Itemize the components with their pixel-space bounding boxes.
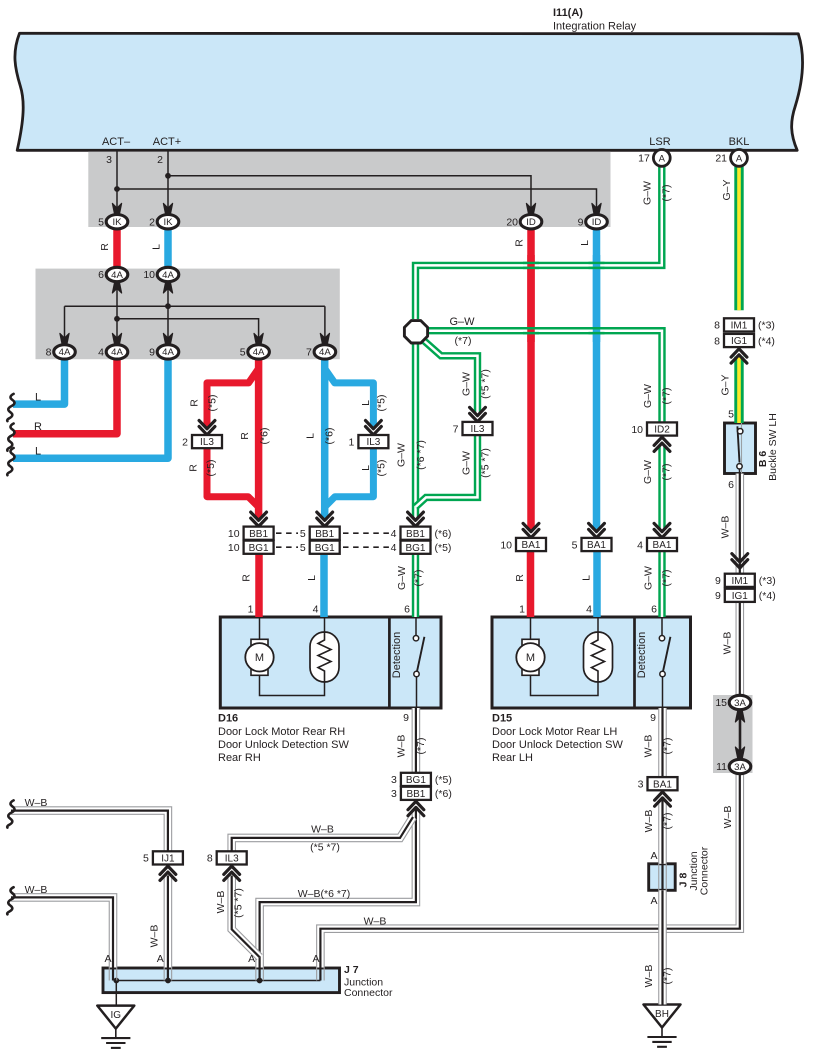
svg-text:M: M [526, 652, 535, 664]
frayed end L bottom [7, 448, 14, 475]
svg-text:(*7): (*7) [662, 738, 674, 755]
pass-through arrows between 3A connectors [739, 712, 742, 757]
svg-text:Door Lock Motor Rear RH: Door Lock Motor Rear RH [218, 726, 345, 738]
label D15 block [492, 713, 623, 765]
connector 3A pin15 [715, 695, 750, 709]
svg-text:BB1: BB1 [406, 789, 425, 800]
svg-text:(*7): (*7) [662, 813, 674, 830]
svg-text:1: 1 [248, 604, 254, 616]
shading box around 4A connectors [36, 269, 340, 360]
svg-text:W–B: W–B [149, 925, 161, 948]
wire G-W octagon to ID2 [427, 331, 662, 423]
svg-text:(*5): (*5) [435, 774, 452, 786]
svg-text:L: L [360, 400, 372, 406]
svg-text:9: 9 [403, 712, 409, 724]
chevron into BA1-5 [589, 523, 605, 537]
label J7 [344, 964, 393, 999]
svg-text:(*5 *7): (*5 *7) [480, 448, 492, 478]
svg-text:W–B: W–B [722, 806, 734, 829]
chevron below IM1-8 [731, 349, 747, 363]
label J8 [678, 846, 711, 895]
connector A pin21 BKL [715, 150, 747, 167]
svg-text:10: 10 [228, 528, 240, 540]
wire L IK2 to 4A10 [164, 228, 172, 269]
wire L loop through IL3-1 [325, 369, 374, 508]
dashed link BB1 row [276, 532, 389, 534]
green crossing patches [523, 263, 539, 268]
svg-text:W–B: W–B [311, 824, 334, 836]
svg-text:1: 1 [349, 436, 355, 448]
svg-text:Integration Relay: Integration Relay [553, 21, 637, 33]
svg-text:4A: 4A [111, 270, 123, 281]
connector IG1 pin8 [714, 334, 775, 347]
svg-text:ID2: ID2 [654, 425, 670, 436]
svg-text:L: L [305, 433, 317, 439]
svg-text:9: 9 [578, 216, 584, 228]
connector BB1 pin4 [391, 527, 452, 540]
wire R ID20 to BA1-10 [527, 228, 535, 530]
svg-text:(*5 *7): (*5 *7) [310, 842, 340, 854]
svg-text:3: 3 [106, 154, 112, 166]
connector BB1 pin10 [228, 527, 274, 540]
component J7 junction connector [103, 968, 340, 993]
svg-text:R: R [239, 432, 251, 440]
wire W-B IJ1 to J7 [164, 876, 173, 968]
svg-text:G–W: G–W [642, 460, 654, 484]
svg-text:(*5 *7): (*5 *7) [233, 888, 245, 918]
connector IK pin2 [149, 215, 179, 229]
svg-text:W–B(*6 *7): W–B(*6 *7) [298, 888, 351, 900]
arrow into ID9 [592, 203, 601, 215]
wire G-W octagon main down to BB1-4 [412, 343, 419, 518]
wire pin3 ACT- down [116, 151, 118, 214]
svg-text:BA1: BA1 [653, 779, 672, 790]
arrow into 4A8 [60, 333, 69, 345]
label I11(A) Integration Relay [553, 7, 637, 33]
svg-text:IG1: IG1 [732, 591, 749, 602]
svg-text:A: A [650, 895, 657, 907]
svg-text:G–Y: G–Y [721, 179, 733, 200]
svg-text:IG: IG [111, 1010, 122, 1021]
connector IG1 pin9 [715, 589, 776, 602]
chevron into IL3-2 [199, 421, 215, 435]
connector 3A pin11 [716, 759, 751, 773]
arrow into 4A6 [112, 281, 121, 293]
svg-text:A: A [157, 953, 164, 965]
connector BB1 pin3 [391, 787, 452, 800]
svg-text:I11(A): I11(A) [553, 7, 583, 19]
svg-text:L: L [35, 392, 41, 404]
svg-text:6: 6 [404, 604, 410, 616]
svg-text:R: R [514, 574, 526, 582]
connector IL3 pin2 [182, 435, 222, 448]
svg-text:5: 5 [300, 528, 306, 540]
svg-text:10: 10 [500, 539, 512, 551]
label D16 block [218, 713, 349, 765]
svg-text:BG1: BG1 [405, 543, 425, 554]
svg-text:G–W: G–W [642, 384, 654, 408]
svg-text:3A: 3A [734, 698, 746, 709]
svg-text:L: L [35, 446, 41, 458]
svg-text:2: 2 [157, 154, 163, 166]
connector IL3 pin7 [453, 422, 493, 435]
component D16 Door Lock Motor Rear RH [220, 617, 441, 708]
wire G-W LSR to octagon [416, 162, 662, 319]
svg-text:IM1: IM1 [731, 321, 748, 332]
svg-text:W–B: W–B [722, 632, 734, 655]
frayed end W-B top [7, 800, 14, 827]
svg-text:17: 17 [638, 153, 650, 165]
svg-text:G–W: G–W [396, 443, 408, 467]
wire ACT+ to ID20 [168, 176, 531, 213]
svg-text:(*7): (*7) [415, 738, 427, 755]
svg-text:BG1: BG1 [406, 775, 426, 786]
connector IM1 pin9 [715, 574, 776, 587]
chevron below ID2 [654, 437, 670, 451]
svg-text:(*6): (*6) [435, 528, 452, 540]
svg-text:5: 5 [143, 853, 149, 865]
svg-text:(*7): (*7) [662, 968, 674, 985]
svg-text:Buckle SW LH: Buckle SW LH [767, 413, 779, 481]
svg-text:9: 9 [650, 712, 656, 724]
connector ID pin9 [578, 215, 608, 229]
frayed end L top [7, 394, 14, 421]
arrow into 4A10 [163, 281, 172, 293]
svg-text:BB1: BB1 [406, 529, 425, 540]
wire G-W BA1-4 to D15 pin6 [658, 552, 665, 618]
svg-text:W–B: W–B [396, 735, 408, 758]
svg-text:Door Lock Motor Rear LH: Door Lock Motor Rear LH [492, 726, 617, 738]
svg-text:G–W: G–W [643, 566, 655, 590]
svg-text:L: L [360, 465, 372, 471]
chevron into BG1-3 stack [408, 801, 424, 815]
svg-text:3: 3 [391, 774, 397, 786]
svg-text:IJ1: IJ1 [161, 854, 175, 865]
svg-text:BB1: BB1 [249, 529, 268, 540]
chevron into BA1-3 [655, 792, 671, 806]
svg-text:BG1: BG1 [315, 543, 335, 554]
wire J7 to IG ground [115, 981, 117, 1006]
component J8 junction connector [649, 864, 676, 891]
svg-text:(*6): (*6) [324, 428, 336, 445]
svg-text:G–Y: G–Y [720, 374, 732, 395]
svg-text:8: 8 [714, 335, 720, 347]
wire pin2 ACT+ down [167, 151, 169, 214]
connector IL3 pin8 [207, 851, 247, 864]
svg-text:BH: BH [655, 1009, 669, 1020]
connector ID2 pin10 [631, 422, 677, 435]
svg-text:(*4): (*4) [759, 590, 776, 602]
svg-text:4A: 4A [162, 347, 174, 358]
svg-text:4: 4 [313, 604, 319, 616]
svg-text:Detection: Detection [391, 632, 403, 678]
svg-text:4A: 4A [162, 270, 174, 281]
connector 4A pin8 [46, 345, 76, 359]
frayed end R [7, 424, 14, 451]
ground IG [97, 1006, 134, 1048]
connector A pin17 LSR [638, 150, 670, 167]
wire G-W BG1-4 to D16 pin6 [412, 553, 419, 617]
svg-text:D15: D15 [492, 713, 512, 725]
connector 4A pin7 [306, 345, 336, 359]
svg-text:8: 8 [207, 853, 213, 865]
junction dot J7-3 [257, 978, 263, 984]
component D15 Door Lock Motor Rear LH [492, 617, 691, 708]
svg-text:4A: 4A [59, 347, 71, 358]
connector IL3 pin1 [349, 435, 389, 448]
wire R 4A5 main down to BB1-10 [255, 358, 263, 519]
arrow into IK2 [163, 203, 172, 215]
svg-text:(*7): (*7) [661, 464, 673, 481]
svg-text:W–B: W–B [643, 735, 655, 758]
wire W-B IL3-8 top run to BB1-3 [232, 817, 413, 851]
svg-text:15: 15 [715, 697, 727, 709]
arrow into 4A9 [163, 333, 172, 345]
svg-text:5: 5 [98, 216, 104, 228]
svg-text:A: A [736, 153, 743, 164]
svg-text:(*5): (*5) [435, 542, 452, 554]
svg-text:8: 8 [714, 320, 720, 332]
svg-text:4A: 4A [319, 347, 331, 358]
wire 4A6 to 4A4 [116, 281, 118, 345]
svg-text:(*7): (*7) [455, 335, 472, 347]
shading band under relay [88, 152, 610, 227]
svg-text:W–B: W–B [25, 884, 48, 896]
svg-text:G–W: G–W [642, 181, 654, 205]
svg-text:L: L [581, 575, 593, 581]
svg-text:(*5): (*5) [375, 460, 387, 477]
connector BG1 pin5 [300, 541, 340, 554]
svg-text:IK: IK [163, 217, 173, 228]
svg-text:(*3): (*3) [758, 320, 775, 332]
svg-text:W–B: W–B [720, 516, 732, 539]
svg-text:Connector: Connector [344, 987, 393, 999]
svg-text:ID: ID [526, 217, 536, 228]
svg-text:BA1: BA1 [653, 540, 672, 551]
svg-text:4A: 4A [111, 347, 123, 358]
svg-text:5: 5 [300, 542, 306, 554]
svg-text:J 7: J 7 [344, 964, 359, 976]
svg-text:IL3: IL3 [200, 437, 214, 448]
svg-text:Detection: Detection [636, 632, 648, 678]
svg-text:A: A [104, 953, 111, 965]
connector BB1 pin5 [300, 527, 340, 540]
wire W-B D15 pin9 to BA1-3 [658, 708, 667, 777]
wire W-B left to IJ1 [11, 811, 168, 852]
svg-text:IM1: IM1 [731, 576, 748, 587]
chevron into BB1-5 [317, 512, 333, 526]
svg-text:3: 3 [638, 779, 644, 791]
svg-text:W–B: W–B [643, 965, 655, 988]
wire L 4A7 main down to BB1-5 [321, 358, 329, 519]
wire R loop through IL3-2 [207, 369, 259, 508]
wire 4A10 to 4A9 [167, 281, 169, 345]
wire L BG1-5 to D16 pin4 [320, 553, 328, 617]
wire W-B D16 pin9 to BG1-3 [412, 708, 421, 773]
wire R 4A4 to left [13, 358, 117, 434]
connector IM1 pin8 [714, 318, 775, 331]
connector IK pin5 [98, 215, 128, 229]
connector 4A pin5 [240, 345, 270, 359]
connector 4A pin4 [98, 345, 128, 359]
svg-text:R: R [241, 574, 253, 582]
svg-text:20: 20 [506, 216, 518, 228]
svg-text:(*5): (*5) [207, 395, 219, 412]
frayed end W-B bottom [7, 887, 14, 914]
chevron into BB1-4 [408, 512, 424, 526]
svg-text:IL3: IL3 [471, 424, 485, 435]
svg-text:4A: 4A [253, 347, 265, 358]
svg-text:10: 10 [143, 269, 155, 281]
wire W-B IG1-9 to 3A-15 [735, 602, 744, 696]
svg-text:W–B: W–B [25, 797, 48, 809]
svg-text:4: 4 [637, 539, 643, 551]
chevron into IL3-8 [224, 866, 240, 880]
svg-text:1: 1 [519, 604, 525, 616]
svg-text:A: A [312, 953, 319, 965]
svg-text:(*5): (*5) [205, 460, 217, 477]
svg-text:BB1: BB1 [315, 529, 334, 540]
junction dot J7-1 [113, 978, 119, 984]
arrow into 4A5 [254, 333, 263, 345]
svg-text:6: 6 [728, 479, 734, 491]
svg-text:R: R [189, 399, 201, 407]
connector BG1 pin4 [391, 541, 452, 554]
connector 4A pin10 [143, 267, 178, 281]
arrow into 4A7 [320, 333, 329, 345]
wire W-B left to J7-1 [11, 897, 113, 967]
svg-text:ACT+: ACT+ [153, 136, 181, 148]
svg-text:2: 2 [182, 436, 188, 448]
svg-text:IL3: IL3 [366, 437, 380, 448]
svg-text:9: 9 [715, 575, 721, 587]
svg-text:Rear RH: Rear RH [218, 752, 261, 764]
svg-text:(*7): (*7) [661, 185, 673, 202]
svg-text:ID: ID [592, 217, 602, 228]
svg-text:3A: 3A [734, 762, 746, 773]
svg-text:(*6): (*6) [259, 428, 271, 445]
svg-text:BA1: BA1 [587, 540, 606, 551]
svg-text:W–B: W–B [364, 916, 387, 928]
wire branch to 4A5 [117, 319, 259, 345]
svg-text:(*4): (*4) [758, 335, 775, 347]
svg-text:2: 2 [149, 216, 155, 228]
svg-text:(*6): (*6) [435, 788, 452, 800]
J7 bus wire [116, 980, 320, 982]
svg-text:R: R [514, 239, 526, 247]
wire L 4A8 to left [13, 358, 65, 405]
svg-text:G–W: G–W [449, 316, 475, 328]
wire W-B J7 to IL3-8 [232, 876, 260, 958]
svg-text:6: 6 [98, 269, 104, 281]
svg-text:G–W: G–W [461, 451, 473, 475]
svg-text:(*7): (*7) [661, 388, 673, 405]
integration relay I11(A) band [15, 33, 803, 150]
svg-text:A: A [248, 953, 255, 965]
chevron into IJ1 [160, 866, 176, 880]
svg-text:BKL: BKL [729, 136, 750, 148]
chevron on W-B to IM1-9 [732, 554, 748, 568]
svg-text:4: 4 [586, 604, 592, 616]
connector BG1 pin3 [391, 773, 452, 786]
svg-text:A: A [650, 850, 657, 862]
svg-text:9: 9 [715, 590, 721, 602]
wire R restored at green crossings [527, 255, 535, 342]
wire bus 4A8 to 4A7 [65, 306, 325, 345]
arrow into 4A4 [112, 333, 121, 345]
svg-text:IK: IK [112, 217, 122, 228]
wire L ID9 to BA1-5 [593, 228, 601, 530]
svg-text:D16: D16 [218, 713, 238, 725]
wire G-W ID2 to BA1-4 [658, 445, 665, 530]
connector BA1 pin3 [638, 777, 678, 790]
svg-text:G–W: G–W [461, 372, 473, 396]
arrow into ID20 [526, 203, 535, 215]
junction dot J7-2 [165, 978, 171, 984]
svg-text:7: 7 [453, 423, 459, 435]
svg-text:Door Unlock Detection SW: Door Unlock Detection SW [492, 739, 623, 751]
arrow into IK5 [112, 203, 121, 215]
svg-text:(*7): (*7) [661, 570, 673, 587]
svg-text:R: R [34, 421, 42, 433]
svg-text:R: R [99, 243, 111, 251]
svg-text:7: 7 [306, 347, 312, 359]
svg-text:5: 5 [572, 539, 578, 551]
ground BH [644, 1005, 681, 1047]
svg-text:R: R [188, 464, 200, 472]
svg-text:L: L [306, 575, 318, 581]
svg-text:W–B: W–B [215, 891, 227, 914]
junction dot ACT+ [165, 173, 171, 179]
wire ACT- to ID9 [117, 189, 597, 213]
svg-text:L: L [151, 244, 163, 250]
svg-text:5: 5 [240, 347, 246, 359]
shading box around 3A connectors [713, 695, 753, 773]
svg-text:5: 5 [728, 409, 734, 421]
svg-text:BA1: BA1 [522, 540, 541, 551]
svg-text:BG1: BG1 [249, 543, 269, 554]
svg-text:M: M [255, 652, 264, 664]
svg-text:(*5): (*5) [375, 395, 387, 412]
svg-text:11: 11 [716, 761, 727, 773]
svg-text:(*7): (*7) [413, 570, 425, 587]
wire W-B BB1-3 down to J7 [260, 809, 416, 967]
svg-text:9: 9 [149, 347, 155, 359]
svg-text:4: 4 [391, 542, 397, 554]
chevron into BA1-10 [523, 523, 539, 537]
wire L 4A9 to left [13, 358, 168, 459]
connector BA1 pin4 [637, 538, 677, 551]
svg-text:Door Unlock Detection SW: Door Unlock Detection SW [218, 739, 349, 751]
svg-text:(*5 *7): (*5 *7) [480, 369, 492, 399]
svg-text:21: 21 [715, 153, 727, 165]
wire W-B 3A-11 to J7 [320, 773, 739, 968]
wire G-W loop through IL3-7 [422, 339, 478, 414]
component B6 Buckle SW LH [725, 423, 756, 474]
wire W-B B6 pin6 to IM1-9 [735, 474, 744, 574]
chevron into BB1-10 [251, 512, 267, 526]
svg-text:Rear LH: Rear LH [492, 752, 533, 764]
connector ID pin20 [506, 215, 541, 229]
svg-text:8: 8 [46, 347, 52, 359]
svg-text:IG1: IG1 [731, 336, 748, 347]
connector BA1 pin5 [572, 538, 612, 551]
svg-text:IL3: IL3 [225, 854, 239, 865]
wire G-Y BKL to IM1-8 [734, 162, 743, 310]
svg-text:Connector: Connector [699, 846, 711, 895]
chevron into IL3-7 [470, 407, 486, 421]
svg-text:G–W: G–W [396, 566, 408, 590]
